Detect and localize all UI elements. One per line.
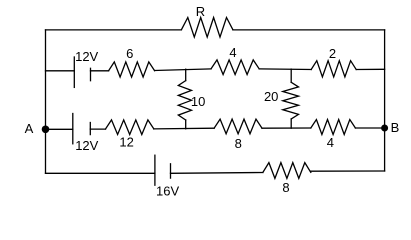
svg-text:20: 20 [264, 89, 278, 104]
svg-text:R: R [196, 4, 205, 19]
battery 12V (top row) [74, 49, 98, 87]
wire resistor 6 to resistor 4 [155, 69, 211, 71]
wire resistor 8 to resistor 4 [262, 127, 311, 129]
svg-text:10: 10 [191, 94, 205, 109]
wire resistor 8 to right rail [311, 170, 385, 172]
svg-text:4: 4 [229, 45, 236, 60]
resistor R [181, 4, 233, 37]
svg-text:16V: 16V [156, 184, 179, 199]
wire bottom-left segment [46, 172, 155, 174]
svg-text:4: 4 [327, 135, 334, 150]
svg-text:12V: 12V [75, 138, 98, 153]
wire stub row1 to resistor 10 [185, 69, 187, 80]
svg-text:6: 6 [126, 46, 133, 61]
wire resistor 4 to node B [355, 127, 384, 129]
wire battery to resistor 6 [91, 70, 109, 72]
wire resistor 20 to row2 [290, 119, 292, 128]
svg-text:2: 2 [329, 46, 336, 61]
resistor 8 (middle row) [214, 119, 262, 151]
wire resistor 2 to right rail [356, 68, 384, 70]
resistor 6 [109, 46, 155, 77]
svg-text:B: B [391, 120, 400, 135]
wire battery to resistor 8 [171, 172, 263, 175]
svg-text:8: 8 [235, 136, 242, 151]
wire top-right segment [233, 29, 385, 31]
resistor 4 (middle row) [311, 120, 356, 150]
svg-text:8: 8 [282, 180, 289, 195]
wire resistor 10 to row2 [185, 120, 187, 129]
node A [25, 121, 50, 136]
battery 16V [155, 155, 180, 198]
wire top-left segment [46, 29, 182, 31]
wire battery to resistor 12 [90, 128, 105, 130]
svg-text:A: A [25, 121, 34, 136]
resistor 2 [311, 46, 356, 77]
svg-text:12V: 12V [75, 49, 98, 64]
wire stub row1 to resistor 20 [290, 69, 292, 82]
resistor 12 [106, 120, 154, 150]
svg-text:12: 12 [119, 135, 133, 150]
wire right rail [384, 30, 386, 171]
resistor 10 (vertical) [178, 81, 205, 120]
resistor 4 (top row) [211, 45, 259, 74]
wire resistor 12 to resistor 8 [154, 127, 214, 130]
resistor 8 (bottom row) [263, 163, 311, 195]
wire row1 left stub [46, 70, 75, 72]
node B [381, 120, 399, 135]
wire left rail [45, 30, 47, 173]
wire resistor 4 to resistor 2 [259, 68, 311, 71]
resistor 20 (vertical) [264, 82, 299, 119]
wire node A to battery [46, 128, 73, 130]
battery 12V (middle row) [73, 114, 99, 154]
